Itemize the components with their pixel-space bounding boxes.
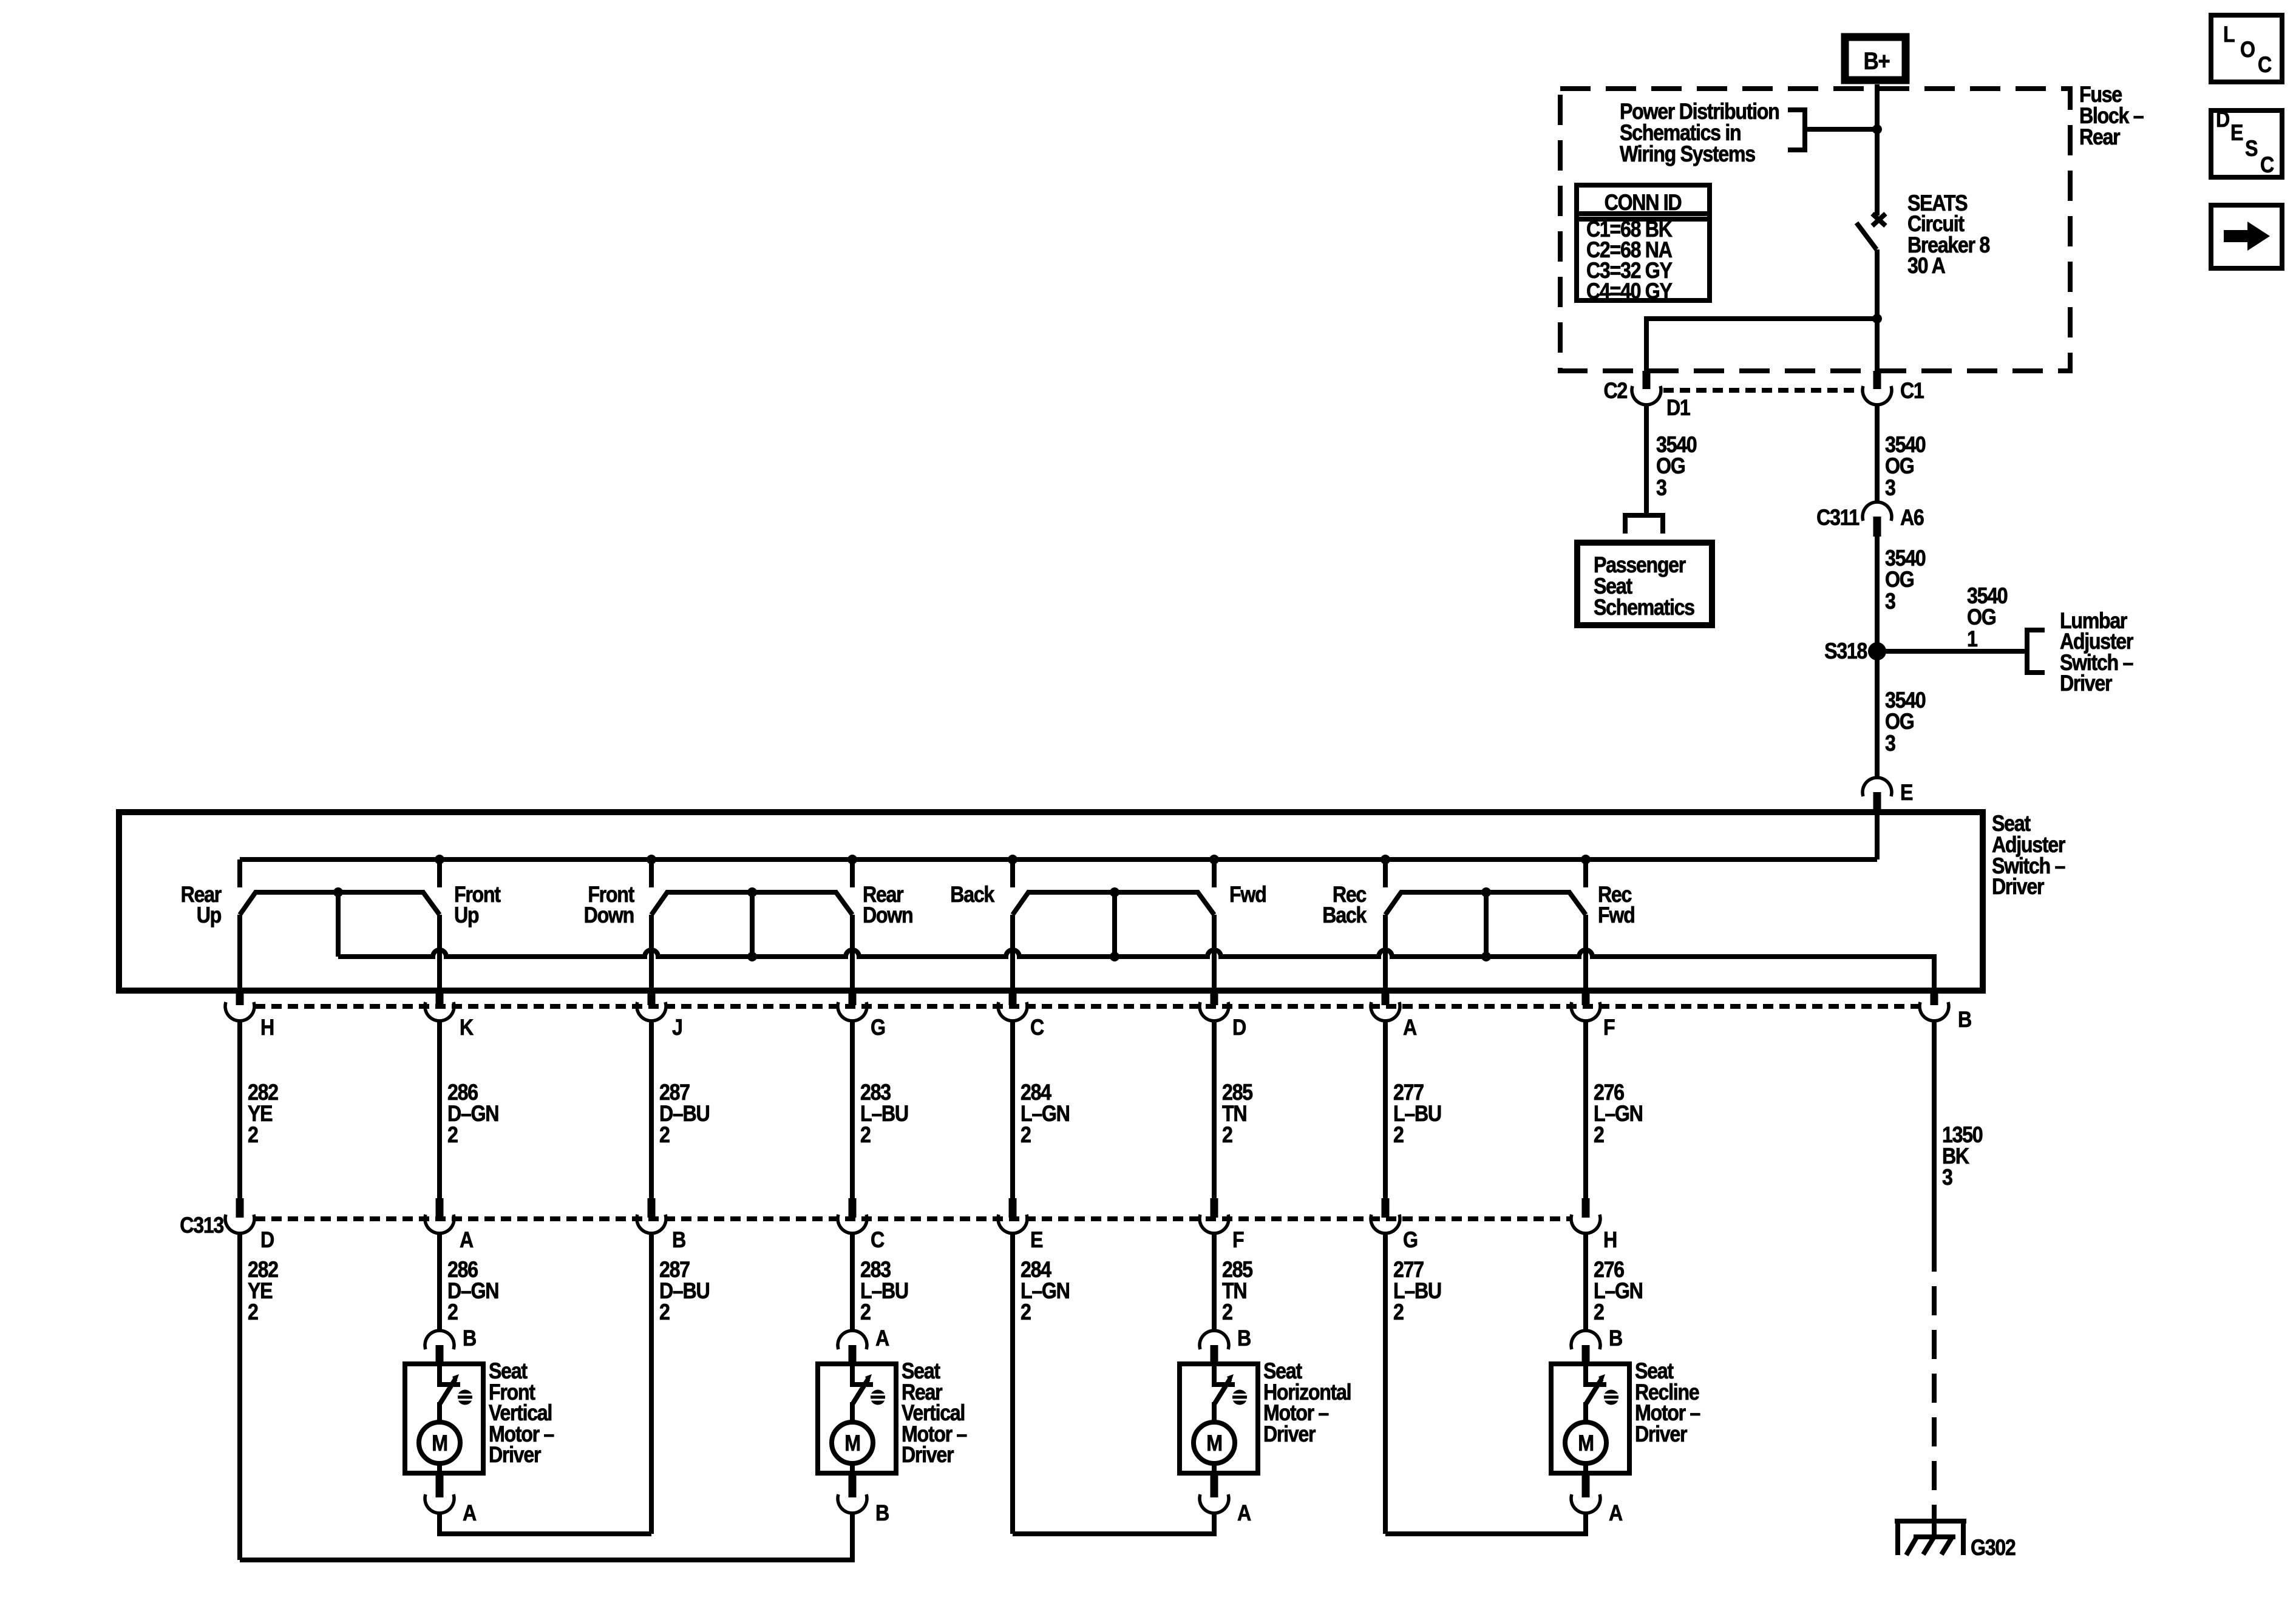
switch fixed contact x=1404 <box>850 859 855 887</box>
wire blade to motor in Seat Recline Motor <box>1583 1402 1588 1423</box>
node: runner junction Rec Back/Rec Fwd <box>1481 952 1491 961</box>
svg-text:S318: S318 <box>1824 639 1867 664</box>
connector pin C <box>998 1002 1027 1021</box>
svg-text:G: G <box>1403 1228 1418 1253</box>
label Rec Back <box>1322 883 1367 928</box>
svg-text:Back: Back <box>1322 903 1367 928</box>
runner wire to pin B with crossover hops <box>338 950 1934 991</box>
wire B+ to circuit breaker <box>1875 84 1880 215</box>
svg-text:C: C <box>871 1228 885 1253</box>
wire rocker bar to runner Rear Up/Front Up <box>336 892 341 957</box>
wire label 284 L–GN 2 (lower) <box>1021 1258 1070 1325</box>
svg-text:B: B <box>463 1326 476 1351</box>
label Rec Fwd <box>1598 883 1634 928</box>
connector C313 pin H stub <box>1582 1198 1590 1218</box>
wire into motor connector x=1404 <box>850 1316 855 1331</box>
svg-text:2: 2 <box>248 1123 258 1148</box>
wire blade to motor in Seat Horizontal Motor <box>1212 1402 1217 1423</box>
connector Seat Front Vertical Motor pin A <box>425 1494 454 1513</box>
svg-text:C2: C2 <box>1603 379 1627 404</box>
SEATS Circuit Breaker 8 label <box>1907 191 1990 279</box>
svg-text:C: C <box>2258 53 2272 78</box>
wire 287 D–BU 2 below C313 <box>649 1233 654 1534</box>
connector C313 pin E <box>998 1215 1027 1233</box>
label Front Up <box>454 883 501 928</box>
pin B stub <box>436 1345 444 1363</box>
wire into motor connector x=2000 <box>1212 1316 1217 1331</box>
Lumbar Adjuster Switch label <box>2060 609 2133 696</box>
node: runner junction Back/Fwd <box>1110 952 1119 961</box>
wire 276 L–GN 2 from pin F <box>1583 1021 1588 1198</box>
wire label 1350 BK 3 <box>1942 1123 1982 1190</box>
svg-text:Fwd: Fwd <box>1229 883 1266 907</box>
svg-text:30 A: 30 A <box>1907 254 1946 279</box>
breaker thermal element in Seat Front Vertical Motor <box>457 1390 473 1405</box>
svg-text:M: M <box>432 1431 447 1456</box>
switch fixed contact x=2000 <box>1212 859 1217 887</box>
connector pin H <box>225 1002 254 1021</box>
switch rocker bar Back/Fwd <box>1013 892 1214 915</box>
svg-text:A: A <box>463 1501 477 1526</box>
svg-text:G: G <box>871 1015 885 1040</box>
svg-text:2: 2 <box>860 1123 871 1148</box>
svg-text:2: 2 <box>1021 1300 1031 1325</box>
svg-text:A: A <box>1403 1015 1417 1040</box>
svg-text:M: M <box>844 1431 860 1456</box>
wire 276 L–GN 2 below C313 <box>1583 1233 1588 1316</box>
connector pin G stub <box>849 991 857 1005</box>
circuit breaker 8 contact X <box>1872 214 1886 226</box>
breaker wire in Seat Recline Motor <box>1586 1364 1606 1385</box>
svg-text:OG: OG <box>1656 454 1685 479</box>
wire motor to pin A in Seat Recline Motor <box>1583 1463 1588 1473</box>
wire label 277 L–BU 2 (lower) <box>1393 1258 1441 1325</box>
Seat Adjuster Switch - Driver label <box>1992 812 2065 900</box>
wire switch output to pin G <box>850 915 855 991</box>
svg-text:Down: Down <box>863 903 913 928</box>
breaker blade in Seat Horizontal Motor <box>1215 1379 1230 1403</box>
connector C313 pin F stub <box>1211 1198 1218 1218</box>
svg-text:Wiring Systems: Wiring Systems <box>1620 142 1755 167</box>
breaker thermal element in Seat Recline Motor <box>1603 1390 1619 1405</box>
inline connector C313 dashed line <box>255 1216 1571 1221</box>
motor box Seat Front Vertical Motor <box>405 1364 483 1473</box>
pin E stub <box>1873 792 1881 812</box>
node: rocker bar junction Front Down/Rear Down <box>747 887 757 897</box>
switch fixed contact x=2612 <box>1583 859 1588 887</box>
breaker blade in Seat Rear Vertical Motor <box>853 1379 868 1403</box>
wire label 277 L–BU 2 <box>1393 1080 1441 1148</box>
connector Seat Rear Vertical Motor pin B <box>838 1494 867 1513</box>
label Rear Down <box>863 883 913 928</box>
wire 286 D–GN 2 from pin K <box>437 1021 442 1198</box>
svg-text:E: E <box>1030 1228 1042 1253</box>
motor box Seat Rear Vertical Motor <box>818 1364 896 1473</box>
svg-text:Driver: Driver <box>902 1443 954 1468</box>
svg-text:Driver: Driver <box>489 1443 541 1468</box>
Seat Rear Vertical Motor label <box>902 1359 967 1468</box>
breaker blade in Seat Recline Motor <box>1586 1379 1601 1403</box>
bracket: lumbar adjuster switch <box>2027 630 2045 673</box>
connector pin F stub <box>1582 991 1590 1005</box>
wire motor to pin B in Seat Rear Vertical Motor <box>850 1463 855 1473</box>
svg-text:S: S <box>2245 137 2257 161</box>
wire label 276 L–GN 2 (lower) <box>1594 1258 1643 1325</box>
dashed wire to G302 <box>1932 1242 1937 1519</box>
node: bus junction x=1404 <box>847 855 857 864</box>
wire label 287 D–BU 2 <box>659 1080 709 1148</box>
wire label 3540 OG 3 (above E) <box>1885 688 1925 756</box>
svg-text:3: 3 <box>1942 1165 1953 1190</box>
svg-text:2: 2 <box>659 1300 670 1325</box>
DESC legend box <box>2211 107 2282 178</box>
wire 283 L–BU 2 from pin G <box>850 1021 855 1198</box>
wire rocker bar to runner Back/Fwd <box>1112 892 1117 957</box>
svg-text:F: F <box>1603 1015 1615 1040</box>
wire 284 L–GN 2 from pin C <box>1010 1021 1015 1198</box>
wire label 282 YE 2 <box>248 1080 278 1148</box>
svg-text:D1: D1 <box>1666 396 1691 421</box>
svg-text:C: C <box>1030 1015 1044 1040</box>
wire label 3540 OG 1 <box>1967 584 2007 652</box>
svg-text:B: B <box>672 1228 685 1253</box>
connector C2 pin D1 stub <box>1643 371 1651 389</box>
wire switch output to pin A <box>1383 915 1388 991</box>
wire switch output to pin J <box>649 915 654 991</box>
svg-text:CONN ID: CONN ID <box>1605 191 1682 215</box>
wire label 284 L–GN 2 <box>1021 1080 1070 1148</box>
pin B stub <box>1211 1345 1218 1363</box>
switch fixed contact x=2282 <box>1383 859 1388 887</box>
wire S318 to lumbar bracket <box>1877 649 2025 654</box>
wire 287 D–BU 2 from pin J <box>649 1021 654 1198</box>
wire rocker bar to runner Front Down/Rear Down <box>750 892 755 957</box>
Seat Recline Motor label <box>1635 1359 1700 1447</box>
svg-text:3: 3 <box>1885 731 1896 756</box>
wire 277 L–BU 2 from pin A <box>1383 1021 1388 1198</box>
svg-text:Driver: Driver <box>1635 1422 1687 1447</box>
svg-text:3: 3 <box>1885 589 1896 614</box>
svg-text:3: 3 <box>1885 476 1896 501</box>
svg-text:H: H <box>260 1015 274 1040</box>
Fuse Block - Rear label <box>2079 83 2144 150</box>
connector C313 pin H <box>1571 1215 1600 1233</box>
connector C313 pin D <box>225 1215 254 1233</box>
svg-text:B: B <box>1237 1326 1251 1351</box>
switch fixed contact x=1073 <box>649 859 654 887</box>
svg-text:C1: C1 <box>1900 379 1924 404</box>
Seat Horizontal Motor label <box>1263 1359 1351 1447</box>
Power Distribution Schematics label <box>1620 100 1779 167</box>
node: bus junction x=1073 <box>647 855 656 864</box>
motor box Seat Horizontal Motor <box>1180 1364 1258 1473</box>
breaker thermal element in Seat Rear Vertical Motor <box>870 1390 886 1405</box>
svg-text:A: A <box>1237 1501 1251 1526</box>
node: rocker bar junction Rear Up/Front Up <box>333 887 343 897</box>
wire label 3540 OG 3 (C2 leg) <box>1656 433 1696 501</box>
label Rear Up <box>181 883 222 928</box>
connector C313 pin D stub <box>236 1198 244 1218</box>
svg-text:A6: A6 <box>1900 506 1924 531</box>
splice S318 <box>1868 642 1886 660</box>
pin B stub <box>849 1473 857 1497</box>
svg-text:Down: Down <box>584 903 634 928</box>
wire rocker bar to runner Rec Back/Rec Fwd <box>1484 892 1489 957</box>
breaker blade arrow in Seat Horizontal Motor <box>1227 1374 1234 1383</box>
svg-text:D: D <box>260 1228 274 1253</box>
wire switch output to pin H <box>237 915 242 991</box>
svg-text:OG: OG <box>1967 605 1995 630</box>
connector C1 stub <box>1873 371 1881 389</box>
forward arrow box <box>2211 205 2282 268</box>
connector Seat Horizontal Motor pin A <box>1200 1494 1229 1513</box>
ground G302 symbol <box>1895 1519 1966 1555</box>
wire 282 YE 2 from pin H <box>237 1021 242 1198</box>
wire into motor connector x=724 <box>437 1316 442 1331</box>
svg-text:C311: C311 <box>1816 506 1860 531</box>
svg-text:B: B <box>875 1501 889 1526</box>
wire C311 to S318 <box>1875 537 1880 651</box>
bracket: passenger seat schematics <box>1625 515 1663 534</box>
wire loop circuit 282 to motor2 B <box>240 1513 852 1560</box>
wire switch output to pin F <box>1583 915 1588 991</box>
connector Seat Rear Vertical Motor pin A <box>838 1331 867 1349</box>
svg-text:D: D <box>2216 107 2229 132</box>
connector pin G <box>838 1002 867 1021</box>
inline connector dashed line C2-C1 <box>1663 388 1860 393</box>
connector C1 <box>1863 386 1892 405</box>
connector pin K stub <box>436 991 444 1005</box>
wire 284 L–GN 2 below C313 <box>1010 1233 1015 1534</box>
node: junction to C2 branch <box>1872 314 1882 324</box>
switch fixed contact x=395 <box>237 859 242 887</box>
svg-text:2: 2 <box>248 1300 258 1325</box>
connector pin D stub <box>1211 991 1218 1005</box>
wire 285 TN 2 from pin D <box>1212 1021 1217 1198</box>
connector pin F <box>1571 1002 1600 1021</box>
svg-text:E: E <box>1900 781 1912 805</box>
pin A stub <box>1582 1473 1590 1497</box>
connector pin A <box>1371 1002 1400 1021</box>
svg-text:2: 2 <box>860 1300 871 1325</box>
breaker blade in Seat Front Vertical Motor <box>440 1379 455 1403</box>
connector pin J stub <box>648 991 656 1005</box>
connector C313 pin C stub <box>849 1198 857 1218</box>
svg-text:Up: Up <box>454 903 478 928</box>
wire branch to C2 <box>1646 319 1877 371</box>
wire to power distribution bracket <box>1805 127 1877 132</box>
svg-text:D: D <box>1232 1015 1246 1040</box>
node: rocker bar junction Rec Back/Rec Fwd <box>1481 887 1491 897</box>
circuit breaker 8 blade <box>1856 223 1877 249</box>
wire label 283 L–BU 2 (lower) <box>860 1258 908 1325</box>
connector C313 pin A stub <box>436 1198 444 1218</box>
wire 282 YE 2 below C313 <box>237 1233 242 1560</box>
connector Seat Recline Motor pin A <box>1571 1494 1600 1513</box>
svg-text:M: M <box>1578 1431 1593 1456</box>
connector pin H stub <box>236 991 244 1005</box>
svg-text:Rear: Rear <box>2079 125 2120 150</box>
motor box Seat Recline Motor <box>1551 1364 1629 1473</box>
svg-text:B: B <box>1958 1008 1971 1032</box>
wire loop circuit 277 to motor4 A <box>1385 1513 1586 1534</box>
svg-text:2: 2 <box>447 1300 458 1325</box>
node: junction on B+ feed <box>1872 124 1882 134</box>
wire 3540 OG from C2 <box>1644 405 1649 515</box>
svg-text:B: B <box>1609 1326 1622 1351</box>
svg-text:M: M <box>1206 1431 1221 1456</box>
svg-text:Driver: Driver <box>1263 1422 1316 1447</box>
svg-text:3: 3 <box>1656 476 1667 501</box>
svg-text:F: F <box>1232 1228 1244 1253</box>
wire motor to pin A in Seat Horizontal Motor <box>1212 1463 1217 1473</box>
svg-text:2: 2 <box>1021 1123 1031 1148</box>
svg-text:J: J <box>672 1015 682 1040</box>
connector pin E of seat adjuster switch <box>1863 778 1892 796</box>
node: rocker bar junction Back/Fwd <box>1110 887 1119 897</box>
svg-text:2: 2 <box>1222 1300 1232 1325</box>
node: bus junction x=1668 <box>1008 855 1017 864</box>
svg-text:C: C <box>2260 153 2274 178</box>
wire breaker to C1 <box>1875 249 1880 371</box>
wire motor to pin A in Seat Front Vertical Motor <box>437 1463 442 1473</box>
breaker wire in Seat Rear Vertical Motor <box>852 1364 873 1385</box>
switch rocker bar Front Down/Rear Down <box>651 892 852 915</box>
connector C313 pin B <box>637 1215 666 1233</box>
pin A stub <box>1211 1473 1218 1497</box>
connector C313 pin G stub <box>1382 1198 1390 1218</box>
svg-text:OG: OG <box>1885 454 1914 479</box>
switch fixed contact x=724 <box>437 859 442 887</box>
wire loop motor1 A to circuit 287 <box>440 1513 651 1534</box>
node: bus junction x=2000 <box>1209 855 1219 864</box>
bracket: power distribution schematics <box>1788 110 1805 150</box>
Passenger Seat Schematics box <box>1577 543 1712 625</box>
svg-text:2: 2 <box>1594 1123 1604 1148</box>
connector pin J <box>637 1002 666 1021</box>
inline connector dashed line (switch pins) <box>255 1004 1920 1009</box>
breaker blade arrow in Seat Rear Vertical Motor <box>865 1374 872 1383</box>
svg-text:C313: C313 <box>180 1213 224 1238</box>
wire S318 to E <box>1875 651 1880 778</box>
svg-text:1: 1 <box>1967 627 1978 652</box>
wire 286 D–GN 2 below C313 <box>437 1233 442 1316</box>
wire label 276 L–GN 2 <box>1594 1080 1643 1148</box>
svg-text:Schematics: Schematics <box>1594 595 1694 620</box>
wire label 285 TN 2 <box>1222 1080 1253 1148</box>
motor M circle Seat Recline Motor <box>1565 1422 1606 1463</box>
motor M circle Seat Front Vertical Motor <box>419 1422 460 1463</box>
breaker wire in Seat Front Vertical Motor <box>440 1364 460 1385</box>
switch rocker bar Rear Up/Front Up <box>240 892 440 915</box>
pin B stub <box>1582 1345 1590 1363</box>
svg-text:Driver: Driver <box>2060 671 2112 696</box>
connector C311 stub <box>1873 517 1881 537</box>
node: bus junction x=2282 <box>1381 855 1390 864</box>
wire label 282 YE 2 (lower) <box>248 1258 278 1325</box>
svg-text:B+: B+ <box>1864 47 1890 75</box>
svg-text:Up: Up <box>197 903 221 928</box>
connector pin K <box>425 1002 454 1021</box>
wire 1350 BK from pin B <box>1932 1021 1937 1242</box>
connector Seat Recline Motor pin B <box>1571 1331 1600 1349</box>
motor M circle Seat Rear Vertical Motor <box>832 1422 873 1463</box>
connector C313 pin G <box>1371 1215 1400 1233</box>
breaker wire in Seat Horizontal Motor <box>1214 1364 1235 1385</box>
connector pin B <box>1920 1002 1949 1021</box>
svg-text:OG: OG <box>1885 568 1914 592</box>
battery feed B+ <box>1845 37 1906 80</box>
wire label 3540 OG 3 (above C311) <box>1885 433 1925 501</box>
connector C313 pin A <box>425 1215 454 1233</box>
node: runner junction Front Down/Rear Down <box>747 952 757 961</box>
wire 283 L–BU 2 below C313 <box>850 1233 855 1316</box>
wire into motor connector x=2612 <box>1583 1316 1588 1331</box>
breaker blade arrow in Seat Front Vertical Motor <box>452 1374 459 1383</box>
svg-text:G302: G302 <box>1971 1536 2016 1561</box>
wire blade to motor in Seat Front Vertical Motor <box>437 1402 442 1423</box>
connector Seat Front Vertical Motor pin B <box>425 1331 454 1349</box>
wire C1 to C311 <box>1875 405 1880 502</box>
node: bus junction x=724 <box>435 855 444 864</box>
wire label 286 D–GN 2 <box>447 1080 498 1148</box>
pin A stub <box>849 1345 857 1363</box>
CONN ID table <box>1577 185 1710 304</box>
wire switch output to pin C <box>1010 915 1015 991</box>
connector C313 pin C <box>838 1215 867 1233</box>
label Front Down <box>584 883 635 928</box>
svg-text:Driver: Driver <box>1992 875 2044 900</box>
svg-text:E: E <box>2230 121 2243 146</box>
breaker blade arrow in Seat Recline Motor <box>1598 1374 1605 1383</box>
Seat Adjuster Switch - Driver box <box>119 812 1983 991</box>
wire label 3540 OG 3 (above S318) <box>1885 546 1925 614</box>
connector C2 pin D1 <box>1632 386 1661 405</box>
svg-text:2: 2 <box>1393 1123 1404 1148</box>
Seat Front Vertical Motor label <box>489 1359 554 1468</box>
svg-text:C4=40 GY: C4=40 GY <box>1586 279 1673 304</box>
wire switch output to pin D <box>1212 915 1217 991</box>
connector pin A stub <box>1382 991 1390 1005</box>
svg-text:A: A <box>460 1228 474 1253</box>
svg-text:K: K <box>460 1015 474 1040</box>
Fuse Block - Rear dashed outline <box>1560 89 2070 371</box>
wire label 285 TN 2 (lower) <box>1222 1258 1253 1325</box>
switch fixed contact x=1668 <box>1010 859 1015 887</box>
motor M circle Seat Horizontal Motor <box>1194 1422 1235 1463</box>
connector pin B stub <box>1931 991 1938 1005</box>
svg-text:O: O <box>2240 38 2255 63</box>
connector C311 pin A6 <box>1863 502 1892 521</box>
wire blade to motor in Seat Rear Vertical Motor <box>850 1402 855 1423</box>
wire loop circuit 284 to motor3 A <box>1013 1513 1214 1534</box>
wire 285 TN 2 below C313 <box>1212 1233 1217 1316</box>
wire label 287 D–BU 2 (lower) <box>659 1258 709 1325</box>
pin A stub <box>436 1473 444 1497</box>
connector C313 pin F <box>1200 1215 1229 1233</box>
connector pin D <box>1200 1002 1229 1021</box>
switch rocker bar Rec Back/Rec Fwd <box>1385 892 1586 915</box>
svg-text:2: 2 <box>1393 1300 1404 1325</box>
breaker thermal element in Seat Horizontal Motor <box>1232 1390 1248 1405</box>
connector pin C stub <box>1009 991 1017 1005</box>
svg-text:2: 2 <box>1222 1123 1232 1148</box>
svg-text:Back: Back <box>950 883 995 907</box>
svg-text:2: 2 <box>1594 1300 1604 1325</box>
wire switch output to pin K <box>437 915 442 991</box>
wire E into bus <box>1875 812 1880 859</box>
svg-text:L: L <box>2223 22 2235 47</box>
